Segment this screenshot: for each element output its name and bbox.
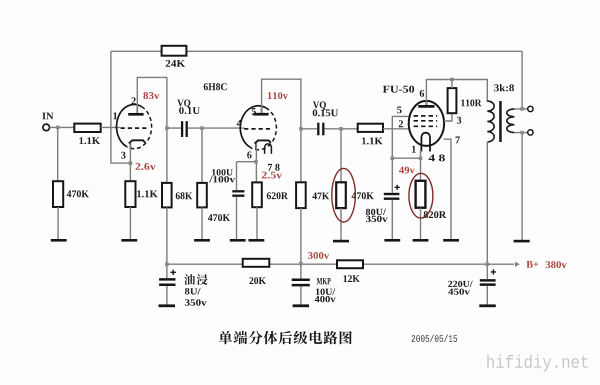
wire secondary top / feedback — [514, 51, 527, 109]
wire 820R to ground — [420, 208, 422, 240]
wire 47K to rail — [300, 208, 302, 264]
label 110v — [268, 92, 288, 99]
resistor 20K — [243, 259, 270, 267]
wire cathode1 — [129, 143, 131, 181]
capacitor VQ 0.1U — [182, 121, 187, 137]
node rail 68K — [165, 262, 169, 266]
capacitor 80U/350v — [384, 194, 400, 199]
label B+ 380v — [527, 261, 539, 268]
ground 470K grid2 — [194, 239, 210, 242]
node cathode cap — [391, 156, 395, 160]
transformer core — [499, 101, 502, 142]
wire 110R top — [451, 80, 453, 89]
highlight ellipse around 820R — [409, 173, 433, 218]
resistor 470K grid2 — [197, 183, 207, 208]
ground 80U — [384, 239, 400, 242]
plus sign 80U — [395, 185, 400, 190]
ground pin7 — [443, 239, 459, 242]
resistor 47K plate load 2 — [296, 182, 306, 208]
label MKP — [317, 278, 331, 284]
wire cathode2 — [255, 143, 257, 182]
capacitor 8U/350v oil — [159, 279, 175, 284]
wire cathode2 stub to 100U — [237, 162, 257, 191]
wire input drop to 470K — [57, 127, 59, 181]
wire 68K to rail — [166, 207, 168, 264]
terminal IN — [43, 124, 50, 131]
wire grid stopper to tube — [383, 128, 409, 130]
capacitor VQ 0.15U — [318, 123, 323, 136]
label 6H8C — [204, 83, 227, 90]
wire plate1 up-over-down — [137, 77, 167, 182]
wire 80U leads — [391, 158, 393, 239]
ground input 470K — [51, 239, 67, 242]
capacitor 100U/100v — [232, 191, 244, 195]
resistor 110R screen — [448, 88, 457, 113]
node grid2 — [200, 126, 204, 130]
node 110R/plate line — [450, 78, 454, 82]
label 2.5v — [262, 172, 282, 179]
node secondary top — [520, 107, 524, 111]
ground 1.1K cathode — [121, 239, 137, 242]
wire 470K FU-50 to ground — [340, 208, 342, 240]
wire plate2 up-over-down — [262, 79, 301, 182]
wire primary bottom to rail — [486, 142, 488, 264]
wire plate FU-50 to transformer — [426, 80, 487, 106]
wire 470K grid2 to ground — [201, 207, 203, 239]
node grid FU-50 — [339, 127, 343, 131]
highlight ellipse around 470K — [332, 168, 356, 222]
wire g3 tie to cathode — [392, 116, 410, 158]
node plate1/coupling — [165, 126, 169, 130]
label 220U — [448, 281, 473, 287]
date text — [412, 335, 458, 342]
tube V1 6H8C section B — [240, 106, 276, 154]
label 49v — [399, 167, 415, 174]
wire grid2 drop — [201, 128, 203, 183]
resistor 68K plate load 1 — [162, 183, 172, 208]
wire 620R to ground — [256, 207, 258, 239]
wire pin7 to ground — [444, 139, 452, 239]
node cathode1 — [129, 161, 133, 165]
terminal speaker - — [528, 130, 533, 135]
resistor 820R — [416, 181, 426, 208]
wire screen pin3 — [444, 113, 452, 121]
wire feedback vertical to cathode — [111, 51, 130, 163]
node rail 47K — [299, 262, 303, 266]
wire 220U leads — [486, 264, 488, 304]
tube V2 FU-50 — [409, 101, 444, 152]
capacitor 220U/450v — [480, 280, 496, 284]
wire top feedback rail — [111, 50, 522, 52]
watermark hifidiy.net — [487, 355, 588, 372]
ground 470K FU-50 — [333, 240, 349, 243]
label 2.6v — [136, 163, 156, 170]
resistor 1.1K grid stopper — [358, 124, 383, 132]
node secondary bottom — [520, 131, 524, 135]
wire cathode FU-50 — [392, 150, 420, 181]
wire 100U to ground — [236, 197, 238, 239]
resistor 470K grid FU-50 (circled) — [336, 182, 346, 208]
transformer 3k:8 — [487, 101, 514, 142]
label 83v — [143, 92, 159, 99]
terminal speaker + — [528, 106, 533, 111]
node cathode 820R — [419, 156, 423, 160]
resistor 1.1K cathode — [125, 181, 135, 207]
wire coupling 1 — [167, 127, 244, 129]
wire input — [50, 126, 75, 128]
wire coupling 2 — [301, 128, 358, 130]
node rail primary — [486, 262, 490, 266]
resistor 620R — [252, 182, 262, 207]
tube V1 6H8C section A — [117, 105, 152, 149]
plus sign 220U — [491, 269, 496, 274]
capacitor MKP 10U/400v — [292, 280, 310, 285]
ground 8U — [159, 304, 176, 307]
label 300v — [308, 252, 329, 259]
ground 100U — [230, 239, 246, 242]
resistor 24K — [162, 46, 187, 56]
wire secondary bottom / ground — [514, 133, 527, 240]
title text — [184, 274, 207, 285]
ground 820R — [413, 239, 429, 242]
node plate2/coupling — [299, 127, 303, 131]
ground speaker — [514, 240, 530, 243]
wire grid leak drop — [340, 129, 342, 183]
resistor 1.1K input — [74, 124, 100, 132]
arrow B+ — [515, 262, 520, 267]
label oil cap — [219, 331, 352, 345]
wire MKP leads — [300, 264, 302, 305]
resistor 470K input — [53, 181, 63, 207]
resistor 12K — [337, 260, 363, 268]
wire 8U leads — [166, 264, 168, 304]
wire grid tube1 — [101, 126, 121, 128]
ground MKP — [293, 304, 310, 307]
ground 620R — [249, 239, 265, 242]
wire B+ rail — [167, 263, 514, 265]
node input — [56, 126, 60, 130]
ground 220U — [479, 304, 496, 307]
node cathode2 — [254, 160, 258, 164]
plus sign 8U — [171, 270, 176, 275]
wire 1.1K cath to ground — [129, 207, 131, 239]
wire 470K to ground — [57, 207, 59, 239]
